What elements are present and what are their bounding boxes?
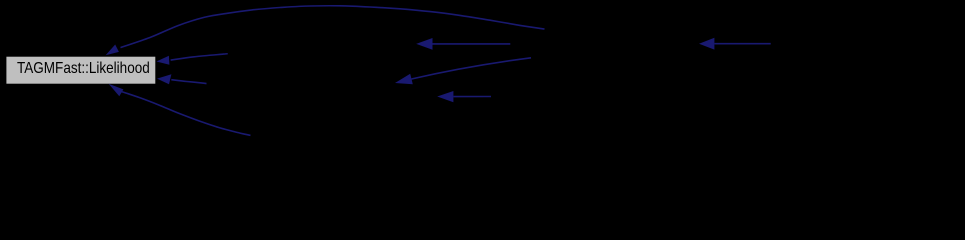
node TAGMFast::Likelihood (6, 56, 156, 84)
edge E arrowhead (416, 38, 432, 50)
edge C wire (upper-right short caller edge) (171, 54, 228, 60)
edge D arrowhead (157, 74, 171, 84)
edge F arrowhead (395, 74, 413, 84)
edge G arrowhead (437, 91, 453, 102)
edge E wire (horizontal mid edge) (433, 43, 511, 45)
edge C arrowhead (156, 56, 169, 65)
edge F wire (long diagonal edge) (412, 58, 532, 79)
edge I arrowhead (699, 38, 714, 50)
edge H wire (bottom arc caller edge) (122, 92, 251, 136)
edge B wire (top arc caller edge) (121, 6, 545, 48)
edge G wire (short horizontal edge) (453, 96, 491, 98)
edge I wire (far right horizontal edge) (714, 43, 770, 45)
edge D wire (lower-right short caller edge) (171, 80, 206, 84)
node TAGMFast::Likelihood label (17, 61, 150, 77)
edge H arrowhead (109, 84, 124, 97)
edge B arrowhead (106, 45, 119, 56)
